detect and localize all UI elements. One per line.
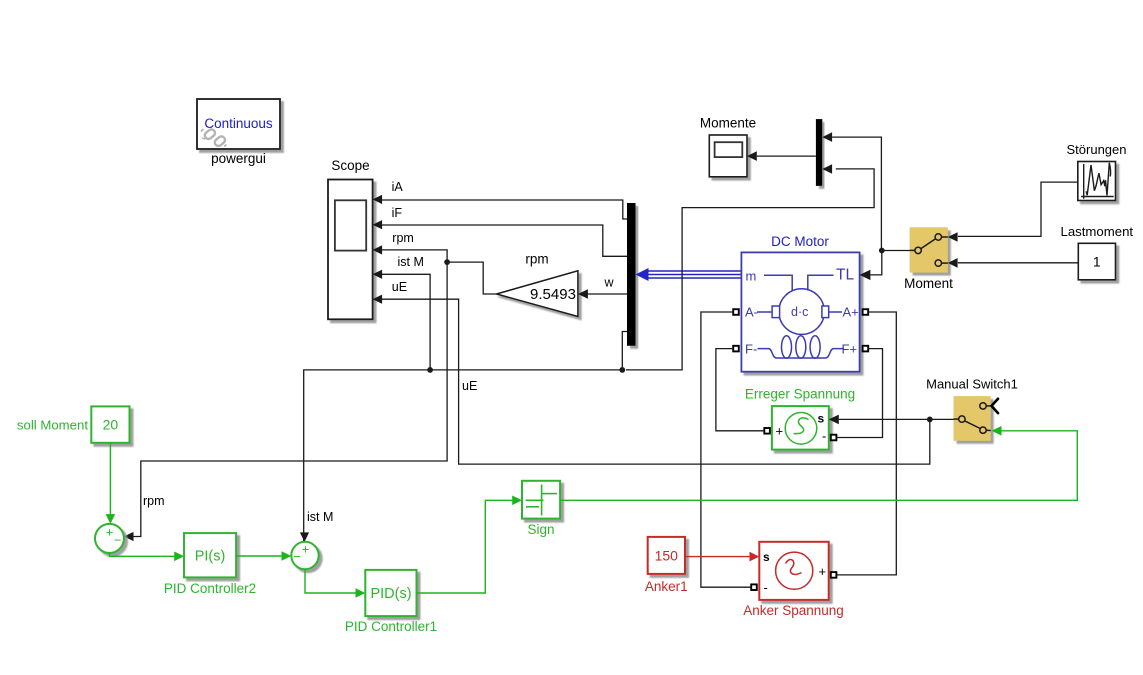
svg-text:F+: F+ bbox=[842, 342, 858, 357]
svg-text:−: − bbox=[114, 533, 122, 548]
junction uE / s bbox=[927, 417, 933, 423]
svg-text:w: w bbox=[604, 276, 615, 290]
block PID Controller1 bbox=[365, 570, 416, 616]
block PID Controller2 bbox=[184, 533, 236, 577]
block Sign bbox=[522, 481, 560, 519]
svg-text:powergui: powergui bbox=[211, 151, 266, 166]
port pad A- bbox=[733, 309, 739, 315]
arrow 20 into Sum1 bbox=[106, 514, 116, 524]
svg-text:rpm: rpm bbox=[392, 231, 414, 245]
svg-text:+: + bbox=[819, 564, 827, 579]
svg-text:Lastmoment: Lastmoment bbox=[1061, 224, 1134, 239]
wire w (demux out3 to gain input) bbox=[587, 293, 627, 295]
block Anker1 (constant 150) bbox=[648, 537, 685, 574]
Erreger s input arrow bbox=[829, 415, 839, 425]
svg-text:ist M: ist M bbox=[398, 255, 424, 269]
svg-text:s: s bbox=[818, 412, 825, 426]
junction istM-scope bbox=[427, 367, 433, 373]
svg-text:m: m bbox=[746, 269, 757, 284]
svg-text:DC Motor: DC Motor bbox=[771, 234, 829, 249]
svg-text:ist M: ist M bbox=[307, 510, 333, 524]
wire PI(s) to Sum2 bbox=[236, 555, 281, 557]
gain input arrow bbox=[578, 289, 588, 299]
svg-text:PID(s): PID(s) bbox=[370, 586, 411, 602]
block Scope bbox=[328, 180, 373, 320]
arrow into Sum2 bbox=[282, 551, 292, 561]
port pad Anker + bbox=[831, 572, 837, 578]
demux (black bar) bbox=[627, 203, 636, 346]
wire iF (demux out2 to Scope) bbox=[382, 225, 627, 256]
port pad F- bbox=[733, 346, 739, 352]
svg-text:9.5493: 9.5493 bbox=[530, 286, 576, 303]
demux input arrow (blue bus) bbox=[636, 268, 649, 281]
block Moment (manual switch) bbox=[910, 227, 948, 272]
powergui broken-link icon bbox=[201, 128, 227, 147]
wire F- to Erreger + bbox=[716, 349, 764, 431]
mux input arrows bbox=[822, 132, 832, 142]
arrow into PI(s) bbox=[174, 552, 184, 562]
svg-text:PID Controller1: PID Controller1 bbox=[345, 619, 437, 634]
Manual Switch1 green input arrow bbox=[992, 426, 1002, 436]
arrow into Anker s bbox=[750, 552, 760, 562]
svg-text:F-: F- bbox=[745, 342, 757, 357]
block Momente scope bbox=[709, 135, 747, 177]
wire Sign out to Manual Switch1 bbox=[560, 431, 1077, 501]
wire Sum2 out to PID(s) bbox=[305, 569, 356, 593]
Scope input arrows (ports 1-5) bbox=[373, 195, 383, 304]
wire A- to Anker - bbox=[701, 312, 752, 587]
svg-text:Momente: Momente bbox=[700, 116, 756, 131]
svg-text:s: s bbox=[763, 550, 770, 564]
arrow into Momente bbox=[747, 151, 757, 161]
svg-text:+: + bbox=[106, 525, 114, 540]
svg-text:d·c: d·c bbox=[791, 305, 808, 319]
wire Sum1 out to PI(s) bbox=[110, 553, 175, 556]
svg-text:Anker1: Anker1 bbox=[645, 579, 688, 594]
port pad Erreger + bbox=[764, 428, 770, 434]
wire Stoerungen to Moment switch bbox=[958, 182, 1078, 236]
wire 150 to Anker s bbox=[685, 556, 750, 558]
wire mux out to Momente bbox=[757, 155, 816, 157]
svg-text:Moment: Moment bbox=[904, 276, 953, 291]
sum Sum1 bbox=[95, 524, 124, 553]
arrow ist M into Sum2 bbox=[300, 532, 309, 542]
mux (black bar, Momente) bbox=[816, 119, 822, 186]
svg-text:Scope: Scope bbox=[331, 158, 369, 173]
wire A+ to Anker + bbox=[837, 312, 897, 575]
svg-text:−: − bbox=[293, 549, 301, 564]
junction istM-demux bbox=[619, 367, 625, 373]
block soll Moment (constant 20) bbox=[91, 406, 129, 442]
junction node rpm branch bbox=[444, 259, 450, 265]
svg-text:-: - bbox=[764, 580, 768, 595]
svg-text:iF: iF bbox=[392, 206, 403, 220]
wire Lastmoment to Moment switch bbox=[958, 262, 1079, 264]
svg-text:Manual Switch1: Manual Switch1 bbox=[926, 377, 1018, 392]
svg-text:uE: uE bbox=[392, 280, 407, 294]
arrow into PID(s) bbox=[356, 588, 366, 598]
junction switch/TL/mux bbox=[879, 248, 885, 254]
wire scope istM branch bbox=[382, 274, 431, 370]
wire F+ to Erreger - bbox=[836, 349, 882, 438]
block powergui (Continuous) bbox=[197, 99, 280, 149]
svg-text:+: + bbox=[302, 542, 310, 557]
svg-text:150: 150 bbox=[655, 548, 679, 564]
port pad F+ bbox=[863, 346, 869, 352]
svg-text:A+: A+ bbox=[843, 305, 859, 320]
wire uE (switch out to scope uE) bbox=[382, 299, 930, 464]
sum Sum2 bbox=[291, 542, 318, 570]
wire rpm feedback to Sum1 bbox=[133, 262, 447, 536]
block Manual Switch1 bbox=[954, 396, 999, 441]
svg-text:TL: TL bbox=[836, 267, 854, 284]
port pad Erreger - bbox=[831, 435, 837, 441]
wire 20 to Sum1 bbox=[109, 443, 111, 516]
wire mux in1 from switch junction bbox=[832, 137, 881, 250]
wire gain output to scope rpm with branch bbox=[382, 250, 497, 294]
motor internals bbox=[757, 275, 844, 358]
block DC Motor bbox=[741, 252, 859, 371]
wire iA (demux out1 to Scope) bbox=[382, 200, 627, 219]
svg-text:1: 1 bbox=[1093, 254, 1101, 270]
Moment switch input arrows bbox=[948, 232, 958, 242]
svg-text:uE: uE bbox=[462, 379, 477, 393]
block Erreger Spannung (controlled voltage source) bbox=[772, 406, 829, 450]
svg-text:rpm: rpm bbox=[143, 494, 165, 508]
svg-text:rpm: rpm bbox=[525, 252, 548, 267]
gain rpm (9.5493) bbox=[497, 271, 578, 317]
svg-text:-: - bbox=[822, 429, 826, 444]
svg-text:Continuous: Continuous bbox=[204, 116, 273, 131]
svg-text:Störungen: Störungen bbox=[1067, 142, 1127, 157]
wire blue bus m bbox=[646, 271, 741, 278]
svg-text:Erreger Spannung: Erreger Spannung bbox=[745, 387, 855, 402]
svg-text:iA: iA bbox=[392, 180, 404, 194]
block Stoerungen bbox=[1078, 162, 1116, 201]
svg-text:Anker Spannung: Anker Spannung bbox=[743, 603, 844, 618]
svg-text:+: + bbox=[776, 424, 784, 439]
svg-text:PI(s): PI(s) bbox=[195, 549, 226, 565]
wire TL from junction bbox=[870, 251, 909, 275]
svg-text:A-: A- bbox=[745, 305, 758, 320]
arrow into Sign bbox=[512, 496, 522, 506]
wire ist M main line bbox=[304, 169, 874, 542]
wire Erreger s from switch junction bbox=[839, 418, 954, 420]
motor port labels bbox=[745, 267, 859, 357]
block Anker Spannung (controlled voltage source) bbox=[759, 542, 828, 600]
svg-text:20: 20 bbox=[103, 417, 119, 433]
block Lastmoment (constant 1) bbox=[1078, 243, 1115, 279]
svg-text:PID Controller2: PID Controller2 bbox=[164, 581, 256, 596]
svg-text:Sign: Sign bbox=[527, 522, 554, 537]
port pad Anker - bbox=[751, 584, 757, 590]
arrow rpm into Sum1 bbox=[124, 532, 134, 541]
svg-text:soll Moment: soll Moment bbox=[17, 418, 88, 433]
port pad A+ bbox=[863, 309, 869, 315]
wire PID(s) to Sign bbox=[417, 500, 513, 593]
TL input arrow bbox=[860, 270, 871, 280]
